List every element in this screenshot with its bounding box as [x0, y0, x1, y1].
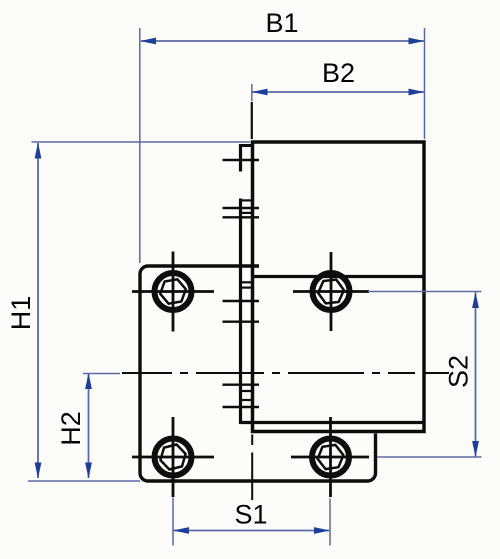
B2 extension left blue overshoot — [251, 84, 253, 101]
body block outline — [253, 142, 425, 432]
rail groove tick 3 — [223, 216, 260, 218]
screw upper-left — [132, 252, 214, 332]
screw upper-right — [293, 252, 369, 331]
svg-text:S1: S1 — [234, 500, 267, 530]
rail inner line 2 — [242, 212, 252, 214]
H1 extension top — [32, 141, 251, 143]
svg-text:B1: B1 — [265, 8, 298, 38]
rail groove tick 1 — [223, 159, 260, 161]
svg-text:S2: S2 — [444, 355, 474, 388]
screw lower-right — [291, 417, 369, 497]
rail strip top edge — [239, 144, 253, 147]
body bottom inner edge — [241, 421, 425, 424]
dimension B1 line — [141, 40, 424, 42]
S1 extension left — [172, 498, 174, 546]
S2 extension bottom — [377, 456, 482, 458]
rail inner line 5 — [242, 390, 252, 392]
B1/B2 extension right — [424, 28, 426, 139]
svg-text:H1: H1 — [6, 296, 36, 331]
svg-text:H2: H2 — [56, 411, 86, 446]
rail groove tick 4 — [223, 300, 260, 302]
H2 extension top — [83, 373, 120, 375]
rail inner line 6 — [242, 399, 252, 401]
rail strip left edge upper — [239, 144, 242, 172]
vertical centerline bottom dash-dot — [251, 435, 253, 446]
rail inner line 4 — [242, 287, 252, 289]
body mid horizontal edge — [253, 275, 425, 278]
rail groove tick 2 — [223, 207, 260, 209]
svg-text:B2: B2 — [322, 58, 355, 88]
S1 extension right — [329, 499, 331, 546]
dimension S2 line — [475, 293, 477, 457]
rail strip left edge lower — [239, 199, 242, 425]
screw lower-left — [132, 417, 214, 497]
rail groove tick 7 — [223, 406, 260, 408]
horizontal centerline dash-dot — [122, 372, 172, 374]
mounting plate outline — [140, 266, 376, 481]
dimension S1 line — [173, 530, 330, 532]
rail groove tick 6 — [223, 384, 260, 386]
rail inner line 1 — [242, 199, 252, 201]
B1 extension left — [139, 28, 141, 263]
vertical centerline top dash — [251, 102, 253, 139]
dimension H1 line — [37, 143, 39, 478]
rail inner line 3 — [242, 281, 252, 283]
dimension H2 line — [88, 374, 90, 478]
S2 extension top — [368, 291, 482, 293]
dimension B2 line — [252, 91, 424, 93]
H1/H2 extension bottom — [28, 480, 140, 482]
rail groove tick 5 — [223, 321, 260, 323]
